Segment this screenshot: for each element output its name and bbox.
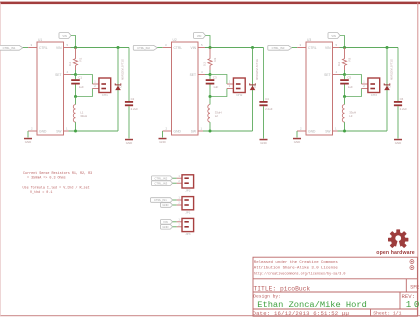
JP1 pin 1 stub [177,199,182,201]
net flag CTRL_IN3 [268,45,292,50]
capacitor C2 2.2uF input [125,101,133,103]
CH2 pin 1 stub [227,83,234,85]
svg-text:VIN: VIN [163,220,168,224]
svg-text:D2: D2 [253,84,257,88]
svg-text:2: 2 [363,84,365,88]
svg-text:1: 1 [201,127,203,131]
JP1 pin 2 stub [177,204,182,206]
svg-text:C2: C2 [131,97,135,101]
wire R to SET node [209,70,211,75]
svg-text:2.2uF: 2.2uF [131,107,139,111]
svg-text:1: 1 [229,80,231,84]
svg-text:GND: GND [39,129,47,133]
svg-text:SET: SET [55,73,61,77]
svg-text:CTRL_IN3: CTRL_IN3 [155,181,168,185]
junction VIN/R [209,46,212,49]
JP3 pin 2 stub [177,226,182,228]
svg-text:3: 3 [165,43,167,47]
open hardware logo gear [388,229,408,250]
net flag GND to JP3 pin 2 [161,225,173,230]
U2 pin 1 (SW) [198,130,203,132]
svg-text:5: 5 [336,43,338,47]
svg-text:U2: U2 [173,38,177,42]
svg-text:VIN: VIN [56,46,62,50]
connector JP1 [182,197,194,210]
svg-text:GND: GND [395,141,401,145]
svg-text:JP2: JP2 [185,189,191,193]
U2 pin 2 (GND) [163,130,172,132]
svg-text:CTRL: CTRL [39,46,48,50]
schottky diode D3 MBR120VLSFT1G [384,83,390,85]
junction node L/C [209,95,212,98]
junction SET node [343,73,346,76]
svg-text:R2: R2 [213,57,217,61]
wire diode branch [386,48,388,132]
CH2 pin 2 stub [227,88,234,90]
svg-text:CH2: CH2 [236,93,242,97]
svg-text:Design by:: Design by: [253,294,281,300]
JP2 pin 1 stub [177,177,182,179]
svg-text:CTRL_IN1: CTRL_IN1 [3,46,16,50]
wire VIN net [205,47,264,49]
junction SW/L [209,130,212,133]
svg-text:5: 5 [67,43,69,47]
wire C4 to ground [263,106,265,138]
svg-text:L3: L3 [349,114,353,118]
connector JP2 [182,175,194,188]
supply flag VIN [194,33,206,39]
svg-text:L2: L2 [215,114,219,118]
wire C5 down [344,85,346,97]
svg-text:R3: R3 [348,57,352,61]
connector JP3 [182,218,194,231]
CH1 pin 1 stub [92,83,99,85]
wire SW net [203,130,253,132]
svg-text:VIN: VIN [325,46,331,50]
svg-text:GND: GND [25,140,31,144]
svg-text:SFE: SFE [410,285,419,291]
wire SET node down [209,75,211,80]
ground U1 [24,138,32,140]
net flag CTRL_IN1 [0,45,23,50]
op-amp-style IC U2 AL8805 box [172,42,199,135]
svg-text:CTRL_IN3: CTRL_IN3 [272,46,285,50]
svg-text:0.2: 0.2 [203,62,207,66]
svg-text:VIN: VIN [62,34,67,38]
svg-text:SW: SW [325,129,331,133]
ground C2 [125,139,133,141]
wire U3 pin2 to ground [296,131,298,138]
U1 pin 1 (SW) [64,130,69,132]
svg-text:3: 3 [300,43,302,47]
net flag GND to JP1 pin 2 [161,203,173,208]
junction VIN/R [74,46,77,49]
svg-text:MBR120VLSFT1G: MBR120VLSFT1G [391,59,394,80]
wire L3 to SW net [344,122,346,131]
inductor L3 33uH [344,97,346,105]
wire SET node down [75,75,77,80]
resistor R3 0.2 current sense [344,48,346,59]
wire SET node to CH2 pin 1 [210,75,227,85]
svg-text:4: 4 [67,70,69,74]
U3 pin 1 (SW) [333,130,338,132]
supply flag VIN [328,33,340,39]
svg-text:CH3: CH3 [371,93,377,97]
U1 pin 4 (SET) [64,74,71,76]
cc icons [410,260,414,264]
wire CTRL_IN1 to U1 [23,47,28,49]
net flag CTRL_IN3 to JP2 pin 2 [152,181,173,186]
capacitor C5 1uF [340,79,349,81]
svg-text:GND: GND [162,225,168,229]
wire CH3 pin 2 to node [345,89,362,97]
U2 pin 3 (CTRL) [163,47,172,49]
junction VIN/D [117,46,120,49]
svg-text:TITLE: picoBuck: TITLE: picoBuck [254,285,311,292]
svg-text:1: 1 [363,80,365,84]
svg-text:D3: D3 [388,84,392,88]
svg-text:1: 1 [66,127,68,131]
svg-text:SET: SET [190,73,196,77]
capacitor C4 2.2uF input [259,101,267,103]
wire diode branch [117,48,119,132]
U2 pin 4 (SET) [198,74,205,76]
net flag CTRL_IN1 to JP1 pin 1 [151,198,173,203]
junction node L/C [343,95,346,98]
svg-text:2: 2 [31,127,33,131]
svg-text:SW: SW [56,129,62,133]
svg-text:1: 1 [178,174,180,178]
svg-text:Ethan Zonca/Mike Hord: Ethan Zonca/Mike Hord [257,300,366,310]
svg-text:0.2: 0.2 [68,62,72,66]
svg-text:2.2uF: 2.2uF [400,107,408,111]
wire C6 to ground [397,106,399,138]
svg-text:C3: C3 [213,76,217,80]
svg-text:SET: SET [324,73,330,77]
svg-text:CTRL: CTRL [174,46,183,50]
svg-text:2.2uF: 2.2uF [265,107,273,111]
U2 pin 5 (VIN) [198,47,205,49]
svg-text:JP3: JP3 [185,232,191,236]
LED output connector CH2 [233,78,245,93]
svg-text:U1: U1 [38,38,42,42]
svg-text:V_thd = 0.1: V_thd = 0.1 [30,190,52,195]
svg-text:CTRL_IN2: CTRL_IN2 [137,46,150,50]
svg-text:Date: 16/12/2013 6:51:52 µµ: Date: 16/12/2013 6:51:52 µµ [253,310,350,317]
svg-text:C5: C5 [347,76,351,80]
svg-text:Attribution Share-Alike 3.0 Li: Attribution Share-Alike 3.0 License [254,266,339,271]
resistor R2 0.2 current sense [209,48,211,59]
net flag CTRL_IN2 to JP2 pin 1 [152,176,173,181]
wire VIN to C4 [263,48,265,102]
svg-text:CH1: CH1 [102,93,108,97]
U3 pin 2 (GND) [297,130,306,132]
page border left [0,3,2,317]
wire C2 to ground [128,106,130,138]
svg-text:1: 1 [335,127,337,131]
svg-text:VIN: VIN [197,34,202,38]
svg-text:GND: GND [162,203,168,207]
LED output connector CH3 [368,78,380,93]
inductor L1 33uH [75,97,77,105]
U3 pin 4 (SET) [333,74,340,76]
junction SET node [209,73,212,76]
svg-text:MBR120VLSFT1G: MBR120VLSFT1G [256,59,259,80]
svg-text:GND: GND [159,140,165,144]
op-amp-style IC U3 AL8805 box [306,42,333,135]
svg-text:http://creativecommons.org/lic: http://creativecommons.org/licenses/by-s… [254,272,346,277]
junction node L/C [74,95,77,98]
svg-text:C6: C6 [400,97,404,101]
wire VIN net [71,47,130,49]
U3 pin 5 (VIN) [333,47,340,49]
JP2 pin 2 stub [177,182,182,184]
svg-text:33uH: 33uH [80,114,87,118]
page border right [417,3,418,317]
wire CTRL_IN2 to U2 [157,47,162,49]
schottky diode D1 MBR120VLSFT1G [115,83,121,85]
svg-text:CTRL: CTRL [308,46,317,50]
resistor R1 0.2 current sense [75,48,77,59]
svg-text:VIN: VIN [331,34,336,38]
wire U2 pin2 to ground [162,131,164,138]
svg-text:= 350mA => 0.3 Ohms: = 350mA => 0.3 Ohms [27,175,66,180]
wire SET node to CH1 pin 1 [76,75,93,85]
page border bottom [0,315,420,316]
wire R to SET node [344,70,346,75]
svg-text:Sheet: 1/1: Sheet: 1/1 [373,311,401,317]
svg-text:Released under the Creative Co: Released under the Creative Commons [254,260,339,265]
ground U3 [293,138,301,140]
svg-text:GND: GND [174,129,182,133]
wire C3 down [209,85,211,97]
junction SW/L [74,130,77,133]
wire CTRL_IN3 to U3 [292,47,297,49]
svg-text:GND: GND [294,140,300,144]
JP3 pin 1 stub [177,221,182,223]
svg-text:2: 2 [166,127,168,131]
svg-text:2: 2 [178,179,180,183]
svg-text:10: 10 [406,299,420,310]
svg-text:1: 1 [94,80,96,84]
svg-text:2: 2 [178,222,180,226]
svg-text:2: 2 [300,127,302,131]
svg-text:R1: R1 [79,57,83,61]
wire L1 to SW net [75,122,77,131]
wire SW net [69,130,119,132]
svg-text:1: 1 [178,217,180,221]
wire diode branch [252,48,254,132]
svg-text:C1: C1 [78,76,82,80]
capacitor C6 2.2uF input [394,101,402,103]
junction SET node [74,73,77,76]
svg-text:U3: U3 [307,38,311,42]
svg-text:0.2: 0.2 [337,62,341,66]
U1 pin 5 (VIN) [64,47,71,49]
svg-text:5: 5 [201,43,203,47]
capacitor C3 1uF [206,79,215,81]
svg-text:4: 4 [336,70,338,74]
svg-text:JP1: JP1 [185,210,191,214]
wire SET node down [344,75,346,80]
capacitor C1 1uF [71,79,80,81]
wire SET node to CH3 pin 1 [345,75,362,85]
CH3 pin 1 stub [361,83,368,85]
ground U2 [159,138,167,140]
junction SW/L [343,130,346,133]
svg-text:CTRL_IN2: CTRL_IN2 [155,176,168,180]
svg-text:1: 1 [178,196,180,200]
svg-text:D1: D1 [119,84,123,88]
U1 pin 2 (GND) [28,130,37,132]
wire VIN flag to VIN net [340,36,345,48]
wire CH2 pin 2 to node [210,89,227,97]
svg-text:1uF: 1uF [79,85,84,89]
net flag VIN to JP3 pin 1 [161,220,173,225]
CH1 pin 2 stub [92,88,99,90]
svg-text:C4: C4 [265,97,269,101]
title block outline [253,257,417,316]
svg-text:open hardware: open hardware [376,250,414,256]
page border top band [0,2,420,5]
CH3 pin 2 stub [361,88,368,90]
wire VIN flag to VIN net [71,36,76,48]
junction VIN/D [251,46,254,49]
svg-text:2: 2 [229,84,231,88]
svg-text:GND: GND [260,141,266,145]
inductor L2 33uH [209,97,211,105]
junction VIN/D [386,46,389,49]
svg-text:2: 2 [94,84,96,88]
svg-text:GND: GND [308,129,316,133]
wire L2 to SW net [209,122,211,131]
svg-text:VIN: VIN [191,46,197,50]
LED output connector CH1 [99,78,111,93]
wire R to SET node [75,70,77,75]
ground C4 [260,139,268,141]
wire U1 pin2 to ground [27,131,29,138]
svg-text:4: 4 [201,70,203,74]
wire CH1 pin 2 to node [76,89,93,97]
svg-text:3: 3 [31,43,33,47]
U3 pin 3 (CTRL) [297,47,306,49]
svg-text:1uF: 1uF [348,85,353,89]
svg-text:2: 2 [178,201,180,205]
wire VIN to C2 [128,48,130,102]
wire VIN to C6 [397,48,399,102]
schottky diode D2 MBR120VLSFT1G [250,83,256,85]
wire SW net [338,130,388,132]
U1 pin 3 (CTRL) [28,47,37,49]
svg-text:SW: SW [191,129,197,133]
svg-text:GND: GND [126,141,132,145]
op-amp-style IC U1 AL8805 box [37,42,64,135]
svg-text:1uF: 1uF [213,85,218,89]
svg-text:MBR120VLSFT1G: MBR120VLSFT1G [122,59,125,80]
wire VIN net [340,47,399,49]
supply flag VIN [59,33,71,39]
ground C6 [394,139,402,141]
svg-text:CTRL_IN1: CTRL_IN1 [154,198,167,202]
junction VIN/R [343,46,346,49]
wire VIN flag to VIN net [206,36,211,48]
net flag CTRL_IN2 [133,45,157,50]
wire C1 down [75,85,77,97]
